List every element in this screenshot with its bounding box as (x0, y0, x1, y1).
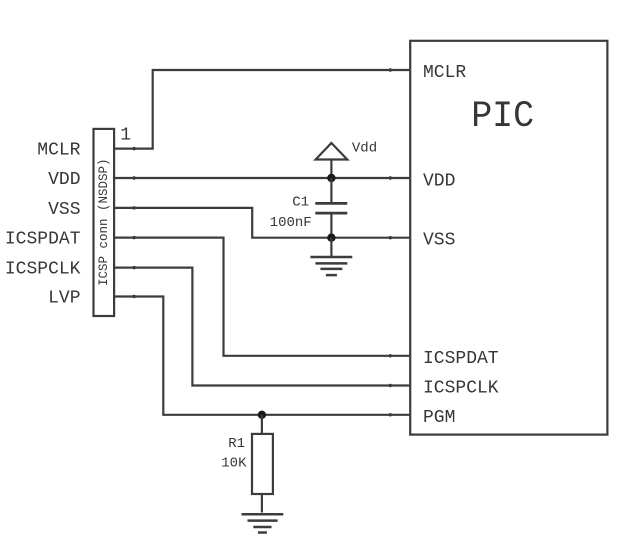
connector J1 (ICSP conn NSDSP) body (94, 129, 115, 316)
svg-text:C1: C1 (292, 194, 309, 210)
junction dot at PGM/R1 (258, 411, 266, 419)
svg-text:1: 1 (120, 126, 131, 146)
svg-text:VDD: VDD (423, 172, 455, 192)
power symbol Vdd (316, 141, 378, 178)
svg-text:ICSPCLK: ICSPCLK (423, 379, 499, 399)
svg-text:100nF: 100nF (270, 215, 312, 231)
wire VDD: connector to PIC VDD (114, 177, 410, 179)
wire MCLR: connector pin1 to PIC MCLR (114, 70, 410, 149)
svg-text:10K: 10K (221, 456, 247, 472)
junction dot at VDD/cap (327, 174, 335, 182)
svg-text:MCLR: MCLR (37, 141, 80, 161)
svg-text:Vdd: Vdd (352, 141, 377, 157)
pin end marks (connector pins) (132, 147, 135, 298)
svg-text:MCLR: MCLR (423, 63, 466, 83)
resistor R1 (221, 415, 273, 513)
ground (capacitor) (310, 238, 352, 275)
svg-text:VDD: VDD (48, 170, 80, 190)
svg-text:PGM: PGM (423, 408, 455, 428)
pin end marks (PIC pins) (389, 68, 392, 416)
svg-text:ICSP conn (NSDSP): ICSP conn (NSDSP) (97, 159, 111, 287)
junction dot at VSS/cap (327, 234, 335, 242)
wire ICSPDAT: connector to PIC ICSPDAT (114, 238, 410, 356)
wire ICSPCLK: connector to PIC ICSPCLK (114, 268, 410, 386)
svg-text:LVP: LVP (48, 289, 80, 309)
svg-text:VSS: VSS (48, 200, 80, 220)
ground (resistor) (242, 514, 284, 532)
wire LVP to PGM (114, 297, 410, 415)
svg-text:ICSPCLK: ICSPCLK (5, 260, 81, 280)
svg-text:ICSPDAT: ICSPDAT (423, 349, 499, 369)
svg-text:ICSPDAT: ICSPDAT (5, 230, 81, 250)
capacitor C1 (270, 178, 348, 238)
svg-text:R1: R1 (228, 436, 245, 452)
svg-text:PIC: PIC (471, 96, 534, 138)
svg-text:VSS: VSS (423, 231, 455, 251)
IC U1 (PIC) body (410, 41, 607, 435)
wire VSS: connector to PIC VSS (114, 208, 410, 238)
